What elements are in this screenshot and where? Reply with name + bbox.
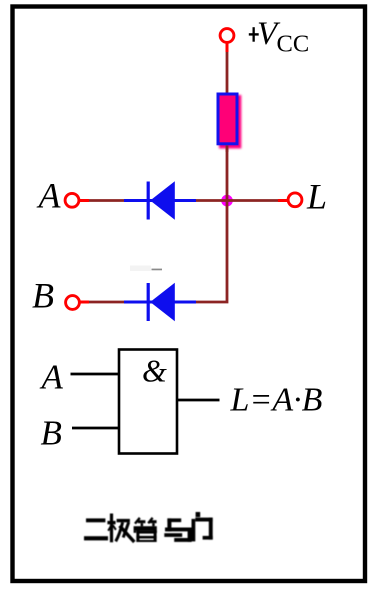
gate output wire bbox=[177, 399, 220, 402]
bright red lead at terminal B bbox=[81, 301, 90, 304]
diode D2 triangle bbox=[150, 283, 175, 321]
diode D1 triangle bbox=[150, 181, 175, 219]
svg-text:&: & bbox=[142, 353, 167, 389]
svg-text:L=A·B: L=A·B bbox=[230, 382, 323, 419]
wire vertical resistor to junction to corner, and horizontal to diode D2 bbox=[195, 144, 227, 302]
resistor R pink halo bbox=[219, 95, 241, 149]
bright red lead at terminal Vcc bbox=[226, 44, 229, 53]
bright red lead at terminal L bbox=[278, 199, 288, 202]
caption 二 bbox=[84, 512, 213, 542]
gate input wire B bbox=[72, 427, 119, 430]
svg-text:A: A bbox=[37, 176, 62, 216]
svg-text:B: B bbox=[41, 414, 62, 453]
label +Vcc bbox=[253, 27, 255, 42]
wire row A horizontal from terminal A to terminal L bbox=[79, 199, 288, 202]
caption 极 bbox=[107, 514, 134, 543]
wire VCC vertical from +Vcc terminal to resistor R bbox=[226, 44, 229, 98]
wire stub through halo below resistor bbox=[226, 146, 229, 153]
diode D2 lead wire (blue) bbox=[124, 301, 196, 304]
svg-text:L: L bbox=[306, 177, 327, 217]
terminal +Vcc circle bbox=[220, 29, 234, 43]
terminal A circle bbox=[65, 193, 79, 207]
svg-text:A: A bbox=[40, 358, 64, 397]
AND gate box U1 bbox=[119, 350, 177, 454]
diode D1 cathode bar bbox=[147, 182, 150, 220]
diode D2 cathode bar bbox=[147, 283, 150, 321]
svg-text:CC: CC bbox=[277, 31, 310, 58]
terminal B circle bbox=[66, 296, 80, 310]
caption 管 bbox=[134, 518, 157, 542]
grey artifact dash above D2 bbox=[152, 269, 163, 271]
resistor R body bbox=[218, 94, 237, 144]
wire row B horizontal from terminal B to diode D2 bbox=[80, 301, 130, 304]
caption 与 bbox=[164, 518, 191, 542]
gate input wire A bbox=[71, 373, 120, 376]
bright red lead at terminal A bbox=[80, 199, 90, 202]
caption 门 bbox=[192, 512, 213, 541]
diode D1 lead wire (blue) bbox=[124, 199, 196, 202]
svg-text:B: B bbox=[32, 276, 54, 316]
terminal L circle bbox=[288, 193, 302, 207]
node J1 junction dot bbox=[221, 195, 233, 207]
